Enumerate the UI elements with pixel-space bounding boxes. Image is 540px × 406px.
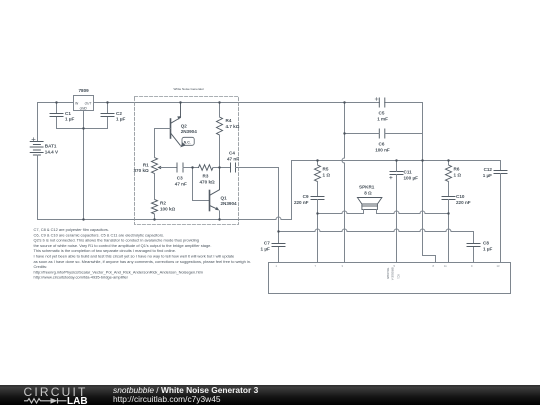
svg-text:1 µF: 1 µF (65, 117, 74, 122)
svg-text:the source of white noise. Var: the source of white noise. Vary R1 to co… (34, 243, 212, 248)
svg-text:370 kΩ: 370 kΩ (134, 168, 149, 173)
svg-text:Credits:: Credits: (34, 264, 48, 269)
resistor R4 4.7 kOhm (217, 103, 223, 168)
capacitor C4 47nF (231, 163, 236, 172)
hop: link rail crosses C9 column (315, 229, 320, 232)
svg-text:C7, C8 & C12 are polyester fil: C7, C8 & C12 are polyester film capacito… (34, 227, 110, 232)
svg-text:47 nF: 47 nF (227, 157, 239, 162)
svg-text:IN: IN (75, 101, 79, 105)
wire: amp output 1 rail to speaker (318, 213, 364, 215)
node C11-ground rail (395, 159, 397, 161)
hop: link rail crosses C10 column (446, 229, 451, 232)
capacitor C8 1uF (467, 244, 480, 263)
svg-text:14.4 V: 14.4 V (45, 150, 59, 155)
capacitor C9 220nF (311, 197, 324, 263)
svg-text:1 Ω: 1 Ω (454, 173, 462, 178)
wire: ground distribution rail (292, 160, 501, 162)
capacitor C1 1uF (50, 103, 63, 129)
capacitor C6 100nF (345, 129, 423, 161)
svg-text:1 mF: 1 mF (377, 117, 388, 122)
svg-text:100 kΩ: 100 kΩ (160, 207, 175, 212)
label IC1 TDA4935 rotated (386, 268, 401, 281)
potentiometer R1 370 kOhm (152, 158, 162, 174)
svg-text:Q2: Q2 (181, 123, 188, 128)
node supply column-top rail (343, 101, 345, 103)
node Q2 emitter-top rail (179, 101, 181, 103)
hop: link rail crosses ground pin column (420, 229, 425, 232)
node ground pin branch (421, 159, 423, 161)
wire: R1 wiper to C3 (161, 167, 178, 169)
node B R3-R4-C4-Q1 collector (218, 166, 220, 168)
svg-text:11: 11 (444, 264, 447, 268)
svg-text:R5: R5 (323, 167, 329, 172)
wire: regulator GND stub down to bottom rail (83, 129, 85, 220)
node R4-top rail (218, 101, 220, 103)
svg-text:220 nF: 220 nF (456, 200, 471, 205)
amp pin numbers (276, 264, 500, 268)
svg-text:http://freenrg.info/Physics/Sc: http://freenrg.info/Physics/Scalar_Vecto… (34, 269, 204, 274)
hop: supply column crosses ground rail (342, 158, 345, 163)
svg-text:13: 13 (497, 264, 500, 268)
hop: link rail crosses supply column (342, 229, 347, 232)
svg-text:IC1: IC1 (397, 275, 401, 280)
node R5-ground rail (316, 159, 318, 161)
svg-text:C2: C2 (116, 111, 122, 116)
svg-text:8: 8 (433, 264, 435, 268)
svg-text:C12: C12 (484, 167, 493, 172)
svg-text:BRIDGE A: BRIDGE A (391, 268, 395, 281)
svg-text:1 µF: 1 µF (483, 173, 492, 178)
dashed enclosure box White Noise Generator (135, 97, 239, 225)
svg-text:BAT1: BAT1 (45, 144, 57, 149)
wire: speaker to amp output 2 rail (377, 213, 449, 215)
svg-text:R1: R1 (143, 162, 149, 167)
svg-text:C5: C5 (379, 111, 385, 116)
resistor R3 470 kOhm (199, 165, 220, 171)
svg-text:1 µF: 1 µF (261, 247, 270, 252)
svg-text:R6: R6 (454, 167, 460, 172)
svg-text:C10: C10 (456, 194, 465, 199)
node C1-top rail (55, 101, 57, 103)
svg-text:1 µF: 1 µF (116, 117, 125, 122)
wire: supply column down to amp pin 3 (344, 103, 346, 263)
wire: +14.4V top supply rail (38, 103, 423, 142)
transistor Q1 2N3904 (210, 168, 220, 220)
svg-text:100 µF: 100 µF (404, 176, 419, 181)
svg-text:47 nF: 47 nF (175, 182, 187, 187)
svg-text:C8: C8 (483, 241, 489, 246)
node R2-bottom rail (153, 218, 155, 220)
capacitor C5 1mF polarized (375, 98, 385, 108)
wire: node A to R3 (193, 167, 199, 169)
resistor R6 1 Ohm (446, 161, 452, 197)
node R6-ground rail (447, 159, 449, 161)
svg-text:TDA4935: TDA4935 (386, 268, 390, 280)
svg-text:2N3904: 2N3904 (221, 201, 238, 206)
svg-text:C7: C7 (264, 241, 270, 246)
notes text block (34, 227, 252, 280)
capacitor C12 1uF (494, 161, 507, 263)
wire: ground branch with jog to amp pin 5 (423, 161, 436, 263)
svg-text:R2: R2 (160, 201, 166, 206)
svg-text:9: 9 (471, 264, 473, 268)
svg-text:GND: GND (80, 107, 88, 111)
bridge amplifier IC1 TDA4935 box (269, 263, 511, 294)
wire: regulator ground net C1-GND-C2 (57, 128, 108, 130)
svg-text:1 µF: 1 µF (483, 247, 492, 252)
svg-text:7809: 7809 (79, 88, 90, 93)
svg-text:R4: R4 (226, 118, 232, 123)
node A C3-R3-Q1 base (191, 166, 193, 168)
svg-text:220 nF: 220 nF (294, 200, 309, 205)
node C2-top rail (106, 101, 108, 103)
svg-text:8 Ω: 8 Ω (364, 191, 372, 196)
svg-text:C11: C11 (404, 170, 413, 175)
svg-text:C9: C9 (303, 194, 309, 199)
hop: link rail crosses C11 column (394, 229, 399, 232)
node C9-output 1 rail (316, 212, 318, 214)
wire: amp input link rail C7 to C8 (279, 232, 474, 244)
footer bar (0, 385, 540, 406)
svg-text:470 kΩ: 470 kΩ (200, 180, 215, 185)
hop: output 1 rail crosses supply column (342, 211, 347, 214)
svg-text:White Noise Generator: White Noise Generator (174, 87, 205, 91)
svg-text:SPKR1: SPKR1 (359, 185, 375, 190)
svg-text:OUT: OUT (85, 101, 93, 105)
capacitor C3 47nF (177, 163, 193, 172)
svg-text:C1: C1 (65, 111, 71, 116)
svg-text:2N3904: 2N3904 (181, 129, 198, 134)
svg-text:N.C.: N.C. (184, 141, 191, 145)
wire: Q1 base lead from node A (193, 168, 210, 201)
svg-text:4.7 kΩ: 4.7 kΩ (226, 124, 240, 129)
svg-text:as soon as I have done so. Mea: as soon as I have done so. Meanwhile, if… (34, 259, 252, 264)
capacitor C11 100uF polarized (390, 161, 403, 263)
speaker SPKR1 8 Ohm (357, 198, 382, 214)
wire: battery negative bottom ground rail (38, 161, 292, 220)
svg-text:100 nF: 100 nF (375, 148, 390, 153)
capacitor C7 1uF (272, 232, 285, 263)
svg-text:R3: R3 (203, 174, 209, 179)
svg-text:C6: C6 (379, 142, 385, 147)
wire: C4 output over to amplifier input column (236, 168, 279, 232)
voltage regulator U1 7809 (74, 96, 94, 129)
svg-text:1: 1 (276, 264, 278, 268)
svg-text:C4: C4 (229, 151, 235, 156)
svg-text:3: 3 (342, 264, 344, 268)
svg-text:Q1: Q1 (221, 195, 228, 200)
svg-text:I have not yet been able to bu: I have not yet been able to build and te… (34, 254, 236, 259)
node C6-supply column (343, 132, 345, 134)
node Q1 emitter-bottom rail (218, 218, 220, 220)
svg-text:http://www.circuitstoday.com/t: http://www.circuitstoday.com/tda-4935-br… (34, 275, 129, 280)
svg-text:C3: C3 (177, 176, 183, 181)
resistor R2 100 kOhm (152, 174, 158, 220)
node regulator GND-mid rail (82, 127, 84, 129)
node C10-output 2 rail (447, 212, 449, 214)
svg-text:1 Ω: 1 Ω (323, 173, 331, 178)
node C7-link rail (277, 230, 279, 232)
svg-text:C6, C9 & C10 are ceramic capac: C6, C9 & C10 are ceramic capacitors. C5 … (34, 232, 165, 237)
capacitor C2 1uF (101, 103, 114, 129)
resistor R5 1 Ohm (315, 161, 321, 197)
wire: node B to C4 (220, 167, 231, 169)
hop: output 2 rail crosses ground pin column (420, 211, 425, 214)
svg-text:LAB: LAB (67, 395, 88, 405)
CircuitLab logo (0, 385, 100, 406)
hop: output 2 rail crosses C11 column (394, 211, 399, 214)
svg-text:7: 7 (315, 264, 317, 268)
battery BAT1 14.4 V (30, 138, 43, 220)
capacitor C10 220nF (442, 197, 455, 263)
N.C. flag on Q2 collector (180, 137, 194, 147)
node regulator GND-bottom rail (82, 218, 84, 220)
transistor Q2 2N3904 (155, 103, 182, 158)
svg-text:This schematic is the completi: This schematic is the completion of two … (34, 248, 176, 253)
hop: bottom rail crosses C4 output column (276, 217, 281, 220)
svg-text:Q2's b is not connected. This: Q2's b is not connected. This allows the… (34, 238, 200, 243)
